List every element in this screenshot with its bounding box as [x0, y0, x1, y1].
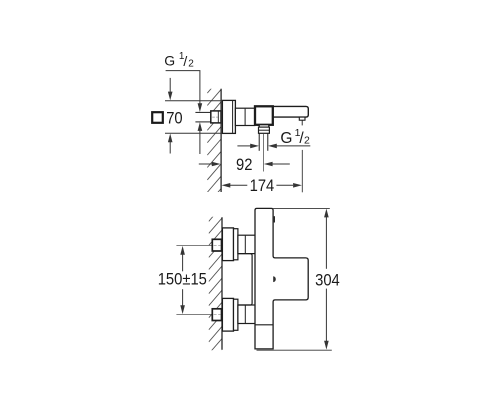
upper connector: [238, 235, 256, 253]
cap tick: [273, 216, 275, 222]
dimension 70 lines and arrows: [165, 78, 222, 154]
wall hatching top view: [207, 77, 221, 217]
spout nozzle: [299, 117, 305, 125]
shower outlet neck: [259, 125, 268, 127]
wall hatching bottom view: [209, 206, 222, 366]
body bridge between inlets: [238, 254, 252, 305]
svg-text:70: 70: [166, 110, 183, 128]
inlet union nut (top view): [211, 111, 221, 123]
thermostat body with handle: [255, 208, 308, 349]
escutcheon plate (top view): [222, 100, 235, 133]
dimension 174: [222, 183, 302, 188]
wall line bottom view: [221, 217, 223, 350]
label G1/2 outlet: [280, 127, 310, 147]
upper escutcheon plate: [222, 228, 238, 261]
logo button on handle: [273, 276, 276, 282]
label G1/2 inlet: [164, 51, 194, 69]
lower escutcheon plate: [222, 298, 238, 331]
dimension 304: [257, 208, 332, 350]
dimension 92: [199, 162, 290, 167]
leader G1/2 inlet with arrows: [166, 71, 203, 154]
dimension 150±15: [180, 246, 185, 314]
svg-text:150±15: 150±15: [158, 271, 207, 289]
spout: [273, 106, 309, 117]
svg-text:2: 2: [304, 134, 310, 146]
svg-text:174: 174: [250, 177, 275, 195]
connector body (top view): [235, 108, 254, 125]
centre line lower inlet: [176, 314, 212, 316]
svg-text:304: 304: [315, 271, 340, 289]
wall line top view: [220, 89, 222, 192]
extension line spout tip: [301, 150, 303, 192]
shower outlet union: [259, 127, 270, 133]
lower connector: [238, 305, 256, 324]
svg-text:G: G: [280, 130, 292, 147]
shower outlet pipe: [259, 133, 268, 151]
svg-text:2: 2: [188, 58, 194, 69]
body seam line: [255, 324, 273, 326]
valve body (top view): [255, 106, 273, 125]
svg-text:92: 92: [236, 156, 252, 174]
centre line upper inlet: [176, 245, 212, 247]
dimension G1/2 outlet arrows: [237, 144, 310, 149]
supply pipe stub: [195, 112, 211, 122]
outlet centre line: [263, 134, 265, 172]
svg-text:G: G: [164, 52, 175, 68]
upper inlet nut: [212, 239, 221, 251]
svg-text:/: /: [183, 53, 187, 69]
lower inlet nut: [212, 309, 221, 321]
square symbol for 70: [152, 112, 163, 123]
